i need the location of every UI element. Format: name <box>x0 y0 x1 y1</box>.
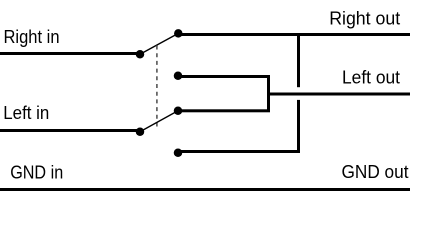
svg-text:Left out: Left out <box>342 68 400 88</box>
svg-text:Right in: Right in <box>4 27 60 47</box>
svg-text:GND out: GND out <box>342 162 409 182</box>
wire: GND line <box>0 188 410 191</box>
dashed gang link between switch poles <box>156 46 158 127</box>
wire: Left in line <box>0 129 141 132</box>
svg-text:GND in: GND in <box>10 163 63 183</box>
node: left channel throw (bracket bottom) <box>174 107 183 116</box>
svg-text:Right out: Right out <box>329 9 400 29</box>
switch lever SW1b (left channel) <box>140 111 178 132</box>
node: left channel pole (common) <box>136 127 145 136</box>
wire: Right in line <box>0 52 141 55</box>
wire: bracket top horizontal <box>178 75 270 78</box>
wire: bracket bottom horizontal <box>178 109 270 112</box>
wire: crossover vertical lower segment <box>297 100 300 152</box>
wire: bottom throw horizontal to crossover <box>178 150 300 153</box>
node: right-out throw <box>174 29 183 38</box>
wire: crossover vertical upper segment (to Right out) <box>297 33 300 87</box>
wire: Right out line <box>178 33 410 36</box>
node: right channel pole (common) <box>136 50 145 59</box>
wire: Left out line <box>267 93 410 96</box>
svg-text:Left in: Left in <box>3 103 49 123</box>
switch lever SW1a (right channel) <box>140 33 178 54</box>
node: swap throw to Left out (bracket top) <box>174 72 183 81</box>
wire: bracket vertical join <box>267 75 270 111</box>
node: swap throw to Right out (bottom) <box>174 148 183 157</box>
